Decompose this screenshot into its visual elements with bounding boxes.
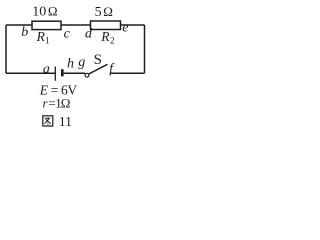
wire top-left segment b side <box>6 24 32 26</box>
caption character tu (figure) drawn as strokes <box>43 116 53 126</box>
wire right edge <box>144 25 146 73</box>
svg-text:10: 10 <box>32 5 46 20</box>
svg-text:5: 5 <box>95 5 102 20</box>
svg-text:11: 11 <box>59 114 72 129</box>
battery E long positive plate <box>54 67 56 81</box>
svg-text:Ω: Ω <box>103 4 113 19</box>
svg-text:S: S <box>94 52 102 68</box>
switch S blade (open) <box>89 64 108 74</box>
svg-text:2: 2 <box>110 35 115 45</box>
svg-text:c: c <box>64 27 71 42</box>
svg-text:h: h <box>67 57 74 72</box>
svg-text:1: 1 <box>45 35 50 45</box>
battery E short negative plate <box>61 69 64 76</box>
svg-text:b: b <box>21 25 28 40</box>
wire switch to bottom-right corner <box>111 72 145 74</box>
svg-text:e: e <box>122 21 128 36</box>
resistor R2 (5 ohm) box <box>91 21 121 30</box>
svg-text:R: R <box>100 29 110 44</box>
svg-text:Ω: Ω <box>48 4 58 19</box>
svg-text:d: d <box>85 27 93 42</box>
wire battery to switch <box>64 72 86 74</box>
resistor R1 (10 ohm) box <box>32 21 61 29</box>
wire top-right segment <box>121 24 145 26</box>
svg-text:a: a <box>43 62 50 77</box>
wire between R1 and R2 <box>61 24 91 26</box>
wire left edge <box>5 25 7 73</box>
svg-text:Ω: Ω <box>61 95 71 110</box>
svg-text:g: g <box>78 55 85 70</box>
svg-text:R: R <box>36 29 46 44</box>
wire bottom-left to battery <box>6 72 55 74</box>
switch S pivot circle <box>85 73 89 77</box>
